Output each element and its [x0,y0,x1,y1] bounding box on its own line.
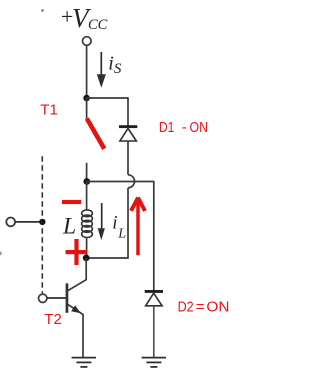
wire hop to bottom corner [87,188,128,258]
svg-text:-: - [182,119,187,136]
svg-text:=: = [196,299,205,316]
transistor T1 bottom stub [86,163,88,182]
node input junction [39,219,45,225]
wire D1 branch upper [127,98,129,126]
svg-text:S: S [114,61,122,77]
svg-text:ON: ON [190,119,209,136]
wire D2 branch vertical [153,182,155,291]
svg-text:ON: ON [206,299,229,316]
svg-text:T1: T1 [40,101,58,118]
wire VCC to node A [86,45,88,98]
svg-text:i: i [112,212,117,233]
current arrow iL freewheel (red up arrow) [131,198,145,256]
ground right [142,358,166,367]
inductor L coil [82,182,93,259]
diode D2 [145,290,163,306]
current arrow iS [97,52,106,88]
wire hop over node B wire [128,175,135,188]
svg-text:D1: D1 [159,119,175,136]
current arrow iL [98,203,105,240]
stray mark left edge [0,252,2,256]
wire D2 to ground [153,306,155,357]
transistor T1 as open switch: top stub [86,98,88,119]
stray mark [41,10,43,12]
terminal base circle [39,294,47,302]
svg-text:CC: CC [88,17,108,33]
node B junction [83,178,90,185]
polarity minus (red) [62,200,81,204]
terminal VCC circle [83,37,92,46]
node A junction [83,95,90,102]
svg-text:L: L [117,227,126,242]
transistor T2 [66,258,87,357]
switch blade T1 open (red) [87,119,105,149]
svg-text:D2: D2 [178,299,194,316]
dashed control line [41,156,43,293]
diode D1 [119,125,137,141]
label iL [112,212,126,241]
wire D1 to hop [127,141,129,175]
wire node B to D2 branch [87,181,155,183]
node C junction [83,255,90,262]
ground left [72,358,96,367]
svg-text:L: L [62,214,76,240]
label iS [108,53,122,77]
node +VCC label [60,3,108,33]
terminal input circle [6,218,15,227]
wire base circle to T2 [47,297,66,299]
wire node A to D1 branch [87,97,129,99]
polarity plus (red) [66,239,88,265]
svg-text:T2: T2 [44,311,62,328]
wire input to dashed line [15,221,42,223]
